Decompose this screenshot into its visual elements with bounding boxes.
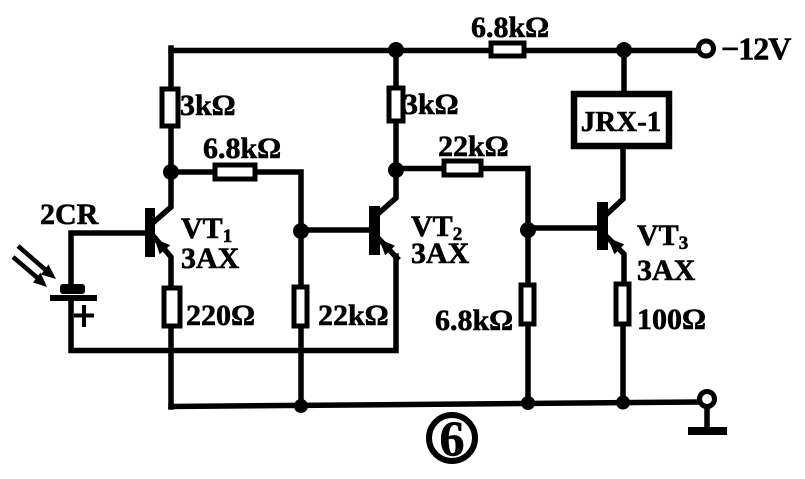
svg-text:6.8kΩ: 6.8kΩ	[203, 132, 281, 165]
svg-text:22kΩ: 22kΩ	[318, 299, 389, 332]
svg-text:6.8kΩ: 6.8kΩ	[471, 11, 549, 44]
svg-text:−12V: −12V	[721, 31, 791, 67]
svg-text:220Ω: 220Ω	[186, 299, 255, 332]
svg-text:JRX-1: JRX-1	[581, 106, 662, 138]
svg-text:3kΩ: 3kΩ	[180, 89, 236, 122]
svg-text:3kΩ: 3kΩ	[403, 88, 459, 121]
svg-text:22kΩ: 22kΩ	[438, 130, 509, 163]
svg-text:3AX: 3AX	[637, 254, 696, 287]
svg-text:100Ω: 100Ω	[637, 303, 706, 336]
svg-text:3AX: 3AX	[181, 242, 240, 275]
svg-text:6.8kΩ: 6.8kΩ	[435, 304, 513, 337]
svg-text:2CR: 2CR	[40, 198, 99, 231]
svg-text:6: 6	[440, 410, 465, 466]
svg-text:3AX: 3AX	[411, 237, 470, 270]
